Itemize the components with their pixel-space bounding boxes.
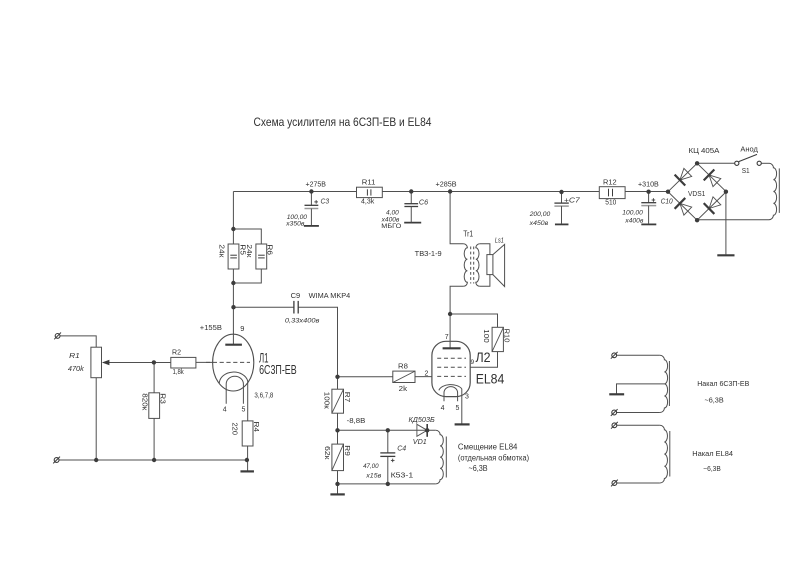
svg-text:VD1: VD1 (413, 439, 427, 446)
svg-text:1,8k: 1,8k (173, 369, 185, 376)
svg-text:100: 100 (482, 329, 489, 343)
svg-text:C6: C6 (419, 199, 428, 206)
tube L2 EL84 envelope (432, 341, 470, 396)
L2 heater (444, 387, 458, 402)
wire: EL84 cathode to ground (461, 389, 463, 424)
capacitor C3 100,00x350v electrolytic (310, 192, 312, 206)
anode winding core (778, 168, 780, 213)
capacitor C7 200,00x450v electrolytic (561, 192, 563, 203)
svg-text:C10: C10 (661, 199, 673, 206)
heater winding EL84 terminals (617, 424, 660, 426)
svg-text:3,6,7,8: 3,6,7,8 (254, 393, 273, 400)
svg-text:-8,8В: -8,8В (347, 418, 366, 425)
wire: C4 top lead (387, 430, 389, 453)
Tr1 core dashed lines (470, 247, 472, 284)
svg-text:ТВЗ-1-9: ТВЗ-1-9 (415, 251, 442, 258)
svg-text:C3: C3 (321, 198, 330, 205)
svg-text:R9: R9 (343, 445, 350, 456)
wire: Tr1 primary bottom to junction (450, 286, 463, 348)
svg-text:R3: R3 (158, 393, 165, 404)
wire: -8.8V node to diode (338, 429, 436, 431)
svg-text:Ls1: Ls1 (495, 237, 504, 244)
L1 cathode (219, 372, 247, 421)
resistor R3 820k (149, 393, 160, 419)
resistor R8 2k (393, 371, 415, 382)
resistor R7 100k (332, 389, 344, 413)
L2 cathode (439, 385, 462, 391)
L1 grid dashed (206, 361, 250, 363)
speaker Ls1 wires (480, 244, 490, 255)
svg-text:+285В: +285В (436, 179, 457, 188)
wire: bridge minus to ground (725, 192, 727, 255)
svg-text:+310В: +310В (638, 179, 659, 188)
ground EL84 cathode (455, 423, 470, 425)
ground heater winding tap (617, 384, 665, 394)
svg-text:(отдельная обмотка): (отдельная обмотка) (458, 453, 530, 462)
wire: junction to R10 top (450, 314, 497, 327)
anode winding top right (769, 163, 777, 219)
resistor R2 1,8k (171, 357, 196, 368)
ground R9 (330, 493, 344, 495)
wire: bottom common rail (59, 459, 247, 461)
L1 heater (226, 376, 243, 403)
resistor R5 24k (228, 244, 239, 269)
svg-text:4,3k: 4,3k (361, 199, 375, 206)
ground C7 (555, 223, 569, 225)
bias winding core (445, 437, 447, 478)
svg-text:К53-1: К53-1 (391, 473, 414, 480)
svg-text:62к: 62к (323, 446, 330, 461)
wire: R1 wiper to R2 (103, 362, 171, 364)
svg-text:2: 2 (425, 370, 429, 377)
switch S1 Anod (735, 161, 739, 165)
svg-text:820к: 820к (140, 393, 147, 411)
svg-text:100к: 100к (323, 392, 330, 410)
resistor R10 100 screen (492, 327, 503, 351)
svg-text:9: 9 (240, 324, 244, 333)
svg-text:4: 4 (223, 406, 227, 413)
wire: R3 leads (153, 362, 155, 460)
svg-text:Накал EL84: Накал EL84 (692, 449, 733, 458)
svg-text:х350в: х350в (285, 220, 305, 227)
svg-text:9: 9 (471, 359, 475, 366)
wire: L1 cathode lead to R4 and ground (247, 421, 249, 446)
ground R4 / L1 cathode (240, 470, 254, 472)
svg-text:х400в: х400в (624, 218, 644, 225)
L2 grid1 dashed (437, 375, 466, 377)
resistor R1 470k potentiometer (91, 347, 102, 378)
svg-text:+155В: +155В (200, 323, 222, 332)
wire: R5/R6 branch + L1 anode lead (232, 192, 234, 345)
svg-text:C4: C4 (397, 443, 406, 452)
svg-text:Tr1: Tr1 (463, 228, 473, 238)
svg-text:5: 5 (242, 406, 246, 413)
svg-text:VDS1: VDS1 (688, 189, 705, 198)
svg-text:5: 5 (456, 405, 460, 412)
wire: R1 bottom lead (95, 378, 97, 460)
transformer Tr1 primary (463, 244, 467, 286)
svg-text:0,33х400в: 0,33х400в (285, 318, 320, 325)
svg-text:2k: 2k (399, 386, 408, 393)
capacitor C6 4,00x400v MBGO (410, 192, 412, 204)
svg-text:470k: 470k (68, 366, 84, 373)
wire: R2 to L1 grid (196, 361, 214, 363)
svg-text:7: 7 (445, 334, 449, 341)
svg-text:WIMA MKP4: WIMA MKP4 (309, 293, 351, 300)
wire: C4 bottom lead (387, 456, 389, 484)
svg-text:~6,3В: ~6,3В (469, 464, 488, 473)
svg-text:R6: R6 (266, 244, 273, 255)
svg-text:3: 3 (465, 393, 469, 400)
svg-text:24к: 24к (245, 244, 252, 258)
tube L1 6S3P-EV envelope (213, 334, 254, 391)
capacitor C4 47,00x15v K53-1 (380, 452, 395, 454)
svg-text:R1: R1 (69, 353, 80, 360)
bridge diode top-left (680, 168, 692, 180)
wire: +285V drop to Tr1 primary (450, 192, 463, 244)
svg-text:R5: R5 (239, 244, 246, 255)
heater winding 6S3P terminals (617, 354, 660, 356)
svg-text:МБГО: МБГО (381, 223, 401, 230)
wire: main B+ rail +275V..bridge (233, 191, 668, 193)
input terminal top (55, 334, 60, 339)
svg-text:S1: S1 (742, 166, 750, 175)
svg-text:КД503Б: КД503Б (409, 417, 436, 424)
resistor R12 510 (599, 187, 625, 199)
L2 grid2 screen dashed (437, 366, 466, 368)
transformer Tr1 secondary (476, 244, 480, 286)
resistor R4 220 (242, 421, 253, 446)
capacitor C9 WIMA MKP4 0,33x400v coupling (293, 301, 295, 314)
bridge VDS1 KTs405A diamond (668, 163, 726, 220)
ground bridge (717, 254, 734, 256)
resistor R11 4,3k (357, 187, 383, 197)
svg-text:+C7: +C7 (564, 198, 581, 205)
ground C10 (641, 223, 656, 225)
wire: R10 bottom to EL84 screen pin9 (470, 352, 497, 368)
svg-text:47,00: 47,00 (363, 463, 379, 470)
svg-text:Смещение EL84: Смещение EL84 (458, 443, 518, 452)
resistor R6 24k (256, 244, 267, 269)
svg-text:х15в: х15в (365, 473, 381, 480)
capacitor C10 100,00x400v electrolytic (648, 192, 650, 203)
heater winding EL84 core (669, 431, 671, 477)
svg-text:220: 220 (231, 423, 238, 436)
svg-text:Л2: Л2 (476, 350, 491, 365)
svg-text:4: 4 (441, 405, 445, 412)
bridge diode bottom-left (680, 203, 692, 215)
svg-text:R11: R11 (362, 179, 376, 186)
svg-text:R2: R2 (172, 350, 181, 357)
wire: C9 input side (234, 306, 294, 308)
L1 anode (225, 344, 242, 346)
bridge diode top-right (709, 175, 721, 187)
L2 grid3 dashed (437, 357, 466, 359)
wire: anode winding bottom to bridge (697, 219, 769, 221)
heater winding 6S3P-EV (660, 355, 668, 412)
wire: input top terminal to R1 (60, 336, 96, 347)
ground C3 (304, 225, 319, 227)
svg-text:510: 510 (605, 200, 616, 207)
speaker Ls1 (487, 255, 493, 275)
L2 anode (443, 347, 461, 349)
heater winding 6S3P core (668, 361, 670, 406)
svg-text:Анод: Анод (740, 145, 758, 154)
diode VD1 KD503B (417, 424, 427, 436)
svg-text:R4: R4 (252, 422, 259, 433)
svg-text:24к: 24к (217, 244, 224, 258)
wire: C9 output to grid network (298, 307, 337, 493)
wire: R6 parallel branch (233, 229, 261, 283)
svg-text:R10: R10 (502, 329, 509, 343)
wire: S1 to anode winding (761, 162, 769, 164)
wire: R8 branch to EL84 grid (338, 376, 432, 378)
svg-text:EL84: EL84 (476, 371, 505, 387)
svg-text:R7: R7 (343, 392, 350, 403)
svg-text:100,00: 100,00 (622, 210, 643, 217)
svg-text:R8: R8 (398, 363, 408, 370)
svg-text:R12: R12 (603, 179, 617, 186)
heater winding EL84 (660, 425, 668, 483)
svg-text:6С3П-ЕВ: 6С3П-ЕВ (259, 363, 297, 377)
svg-text:Схема усилителя на 6С3П-ЕВ и E: Схема усилителя на 6С3П-ЕВ и EL84 (254, 115, 432, 129)
svg-text:+275В: +275В (306, 179, 326, 188)
svg-text:Накал 6С3П-ЕВ: Накал 6С3П-ЕВ (697, 379, 749, 388)
wire: bias winding return bottom (338, 483, 436, 485)
ground C6 (404, 222, 421, 224)
svg-text:200,00: 200,00 (529, 211, 551, 218)
resistor R9 62k (332, 444, 344, 471)
svg-text:C9: C9 (291, 293, 301, 300)
input terminal bottom (54, 458, 59, 463)
svg-text:КЦ 405А: КЦ 405А (689, 146, 720, 155)
svg-text:х450в: х450в (529, 220, 549, 227)
junction dots (231, 227, 235, 231)
bias winding (EL84 offset winding) (436, 430, 444, 484)
bridge diode bottom-right (709, 197, 721, 209)
wire: bridge top to S1 (697, 162, 735, 164)
svg-text:~6,3В: ~6,3В (703, 464, 721, 473)
svg-text:~6,3В: ~6,3В (705, 395, 724, 404)
